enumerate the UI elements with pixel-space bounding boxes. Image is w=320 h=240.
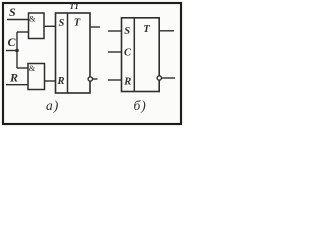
inverter bubble on T1 bbox=[88, 77, 92, 81]
wire S input bbox=[7, 19, 29, 21]
svg-text:S: S bbox=[9, 5, 16, 19]
svg-text:R: R bbox=[9, 71, 18, 85]
wire notQ output (a) bbox=[93, 78, 98, 80]
wire S input (b) bbox=[108, 30, 122, 32]
svg-text:T1: T1 bbox=[69, 1, 78, 11]
svg-text:T: T bbox=[74, 18, 81, 29]
wire R input bbox=[6, 84, 28, 86]
border frame bbox=[3, 3, 181, 124]
inverter bubble (b) bbox=[157, 76, 161, 80]
gate AND1 (&) bbox=[29, 13, 45, 39]
divider (b) bbox=[133, 18, 135, 92]
wire R input (b) bbox=[108, 79, 122, 81]
svg-text:б): б) bbox=[134, 98, 147, 113]
svg-text:а): а) bbox=[46, 98, 59, 113]
wire Q output (a) bbox=[90, 26, 100, 28]
svg-text:T: T bbox=[143, 24, 150, 35]
wire AND1 out to T1 S bbox=[44, 25, 56, 27]
T1 divider bbox=[67, 13, 69, 93]
wire Q output (b) bbox=[159, 30, 174, 32]
flip-flop T1 body bbox=[56, 13, 91, 93]
flip-flop T (b) body bbox=[122, 18, 160, 92]
svg-text:S: S bbox=[59, 18, 65, 29]
svg-text:R: R bbox=[123, 77, 131, 88]
svg-text:&: & bbox=[29, 63, 36, 73]
svg-text:&: & bbox=[29, 13, 36, 23]
wire notQ output (b) bbox=[162, 77, 176, 79]
wire C input bbox=[6, 50, 17, 52]
wire AND2 out to T1 R bbox=[45, 80, 56, 82]
wire C input (b) bbox=[108, 51, 122, 53]
gate AND2 (&) bbox=[28, 64, 45, 90]
wire C to AND2 bbox=[17, 67, 28, 69]
svg-text:C: C bbox=[124, 48, 132, 59]
svg-text:R: R bbox=[57, 76, 65, 87]
node C junction bbox=[15, 49, 19, 53]
wire C to AND1 bbox=[17, 31, 29, 33]
svg-text:S: S bbox=[124, 26, 130, 37]
wire C riser bbox=[16, 32, 18, 68]
svg-text:C: C bbox=[8, 35, 17, 49]
